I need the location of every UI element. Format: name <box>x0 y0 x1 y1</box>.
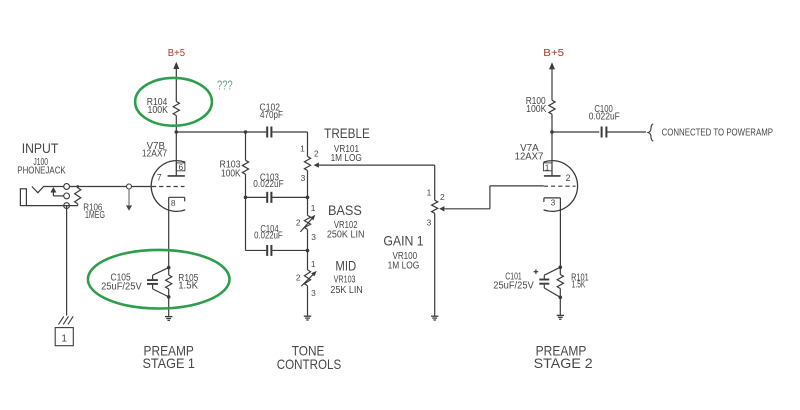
wire left rail mid <box>245 174 247 250</box>
svg-text:VR103: VR103 <box>334 274 356 285</box>
jack terminal ring <box>64 193 70 199</box>
svg-text:1: 1 <box>61 334 67 345</box>
svg-text:1: 1 <box>545 162 550 172</box>
svg-text:100K: 100K <box>526 104 547 115</box>
svg-text:???: ??? <box>217 79 233 93</box>
treble wiper arrow <box>314 162 319 167</box>
V7A cathode bracket (pin 3) <box>544 197 561 199</box>
V7B cathode bracket (pin 8) <box>169 196 185 198</box>
connector circle on grid wire <box>127 184 132 189</box>
svg-text:1.5K: 1.5K <box>178 281 198 292</box>
svg-text:2: 2 <box>296 272 301 282</box>
wire treble to bass <box>307 171 309 216</box>
gain wiper arrow <box>439 206 444 211</box>
svg-text:BASS: BASS <box>328 202 362 218</box>
wire R104 to plate of V7B <box>175 116 177 176</box>
svg-text:2: 2 <box>314 149 319 159</box>
svg-text:0.022uF: 0.022uF <box>253 179 283 190</box>
node cathode top stage1 <box>167 266 171 270</box>
svg-text:7: 7 <box>157 173 162 183</box>
ground stage1 cathode <box>168 297 170 317</box>
wire bass to mid <box>307 229 309 269</box>
resistor R104 <box>173 102 179 116</box>
svg-text:3: 3 <box>551 198 556 208</box>
node cathode bottom stage1 <box>167 295 171 299</box>
ground mid pot <box>304 315 311 317</box>
svg-text:25uF/25V: 25uF/25V <box>101 281 142 292</box>
node C104 right <box>306 249 310 253</box>
svg-text:1: 1 <box>427 188 432 198</box>
svg-text:12AX7: 12AX7 <box>142 149 167 160</box>
svg-text:GAIN 1: GAIN 1 <box>383 232 423 248</box>
svg-text:470pF: 470pF <box>260 110 283 121</box>
V7B plate bar (pin 6) <box>168 175 185 177</box>
potentiometer VR101 TREBLE <box>304 157 310 171</box>
wire mid to ground <box>307 286 309 316</box>
resistor R106 <box>77 187 79 188</box>
V7A plate bar (pin 1) <box>544 175 561 177</box>
node C103 right <box>306 196 310 200</box>
grid wire jack to V7B <box>70 186 152 188</box>
capacitor C105 <box>153 268 169 276</box>
connector box 1 <box>55 328 73 346</box>
ground arrow below connector <box>128 189 130 205</box>
mid wiper diagonal arrow <box>301 275 313 286</box>
wire plate junction to C102 <box>176 131 266 133</box>
svg-text:B+5: B+5 <box>168 48 186 59</box>
node cathode top stage2 <box>559 265 563 269</box>
resistor R103 <box>242 160 248 174</box>
triode V7B envelope <box>151 161 185 212</box>
svg-text:2: 2 <box>566 173 571 183</box>
svg-text:25uF/25V: 25uF/25V <box>493 280 534 291</box>
jack sleeve line <box>26 205 77 207</box>
jack tip spring <box>32 187 64 193</box>
svg-text:1: 1 <box>311 259 316 269</box>
node tone stack top left <box>244 130 248 134</box>
brace to poweramp <box>648 124 653 141</box>
svg-text:CONTROLS: CONTROLS <box>277 356 342 372</box>
svg-text:1M LOG: 1M LOG <box>331 153 362 164</box>
svg-text:3: 3 <box>427 217 432 227</box>
resistor R101 <box>559 267 561 274</box>
jack terminal sleeve <box>64 203 70 209</box>
svg-text:STAGE 2: STAGE 2 <box>534 355 593 371</box>
svg-text:1MEG: 1MEG <box>85 210 105 221</box>
svg-text:PHONEJACK: PHONEJACK <box>17 166 66 177</box>
jack J100 body <box>20 189 26 206</box>
hatch off-page symbol <box>59 316 64 324</box>
C101 plus sign <box>534 271 539 273</box>
svg-text:25K LIN: 25K LIN <box>330 285 362 296</box>
node R106 top <box>76 185 79 188</box>
wire V7B cathode down <box>168 197 170 267</box>
svg-text:8: 8 <box>171 198 176 208</box>
svg-text:0.022uF: 0.022uF <box>254 230 283 241</box>
svg-text:STAGE 1: STAGE 1 <box>142 355 195 371</box>
node C103 left <box>244 196 248 200</box>
svg-text:100K: 100K <box>147 105 168 116</box>
svg-text:2: 2 <box>296 217 301 227</box>
resistor R105 <box>168 268 170 275</box>
svg-text:100K: 100K <box>221 168 241 179</box>
B+5 arrow (stage 2) <box>549 62 555 69</box>
wire gain wiper to V7A grid <box>444 208 490 210</box>
wire gain pot to ground <box>434 213 436 316</box>
svg-text:CONNECTED TO POWERAMP: CONNECTED TO POWERAMP <box>662 127 774 138</box>
wire sleeve down to connector 1 <box>66 206 68 316</box>
svg-text:1: 1 <box>300 144 305 154</box>
svg-text:0.022uF: 0.022uF <box>589 112 620 123</box>
svg-text:250K LIN: 250K LIN <box>327 229 365 240</box>
resistor R100 <box>549 100 555 114</box>
node plate junction stage2 <box>550 130 554 134</box>
V7B pin 6 box and label <box>176 163 185 171</box>
svg-text:2: 2 <box>440 192 445 202</box>
ground stage2 cathode <box>559 297 561 315</box>
svg-text:B+5: B+5 <box>543 48 564 59</box>
node cathode bottom stage2 <box>559 296 563 300</box>
svg-text:12AX7: 12AX7 <box>515 152 544 163</box>
wire C100 to poweramp <box>607 131 646 133</box>
V7B grid dashed line (pin 7) <box>152 186 185 188</box>
svg-text:1: 1 <box>311 203 316 213</box>
triode V7A envelope <box>544 161 578 212</box>
svg-text:6: 6 <box>178 162 183 172</box>
svg-text:INPUT: INPUT <box>22 140 59 156</box>
potentiometer VR100 GAIN 1 <box>432 200 438 213</box>
wire treble wiper to gain pot <box>319 164 435 166</box>
V7A grid dashed line (pin 2) <box>544 185 576 187</box>
annotation green ellipse around R104 <box>135 78 212 126</box>
wire left rail top <box>245 132 247 160</box>
wire C102 to treble <box>272 131 307 133</box>
jack terminal tip <box>64 184 70 190</box>
B+5 arrow (stage 1) <box>173 62 179 69</box>
ground gain pot <box>431 315 438 317</box>
annotation green ellipse around C105 R105 <box>88 250 230 309</box>
svg-text:1M LOG: 1M LOG <box>388 261 420 272</box>
svg-text:MID: MID <box>335 257 356 273</box>
wire R100 to plate of V7A <box>551 114 553 176</box>
jack switch contact arrow <box>50 187 56 193</box>
potentiometer VR102 BASS <box>304 215 310 229</box>
svg-text:3: 3 <box>311 232 316 242</box>
svg-text:3: 3 <box>311 288 316 298</box>
potentiometer VR103 MID <box>304 270 310 286</box>
node plate junction stage1 <box>175 130 179 134</box>
svg-text:3: 3 <box>301 173 306 183</box>
wire plate junction to C100 <box>552 131 599 133</box>
V7A pin 1 box and label <box>543 163 552 171</box>
bass wiper diagonal arrow <box>300 219 311 232</box>
svg-text:1.5K: 1.5K <box>572 280 586 291</box>
capacitor C101 <box>544 267 560 275</box>
wire V7A cathode down <box>559 198 561 267</box>
svg-text:TREBLE: TREBLE <box>324 125 370 141</box>
